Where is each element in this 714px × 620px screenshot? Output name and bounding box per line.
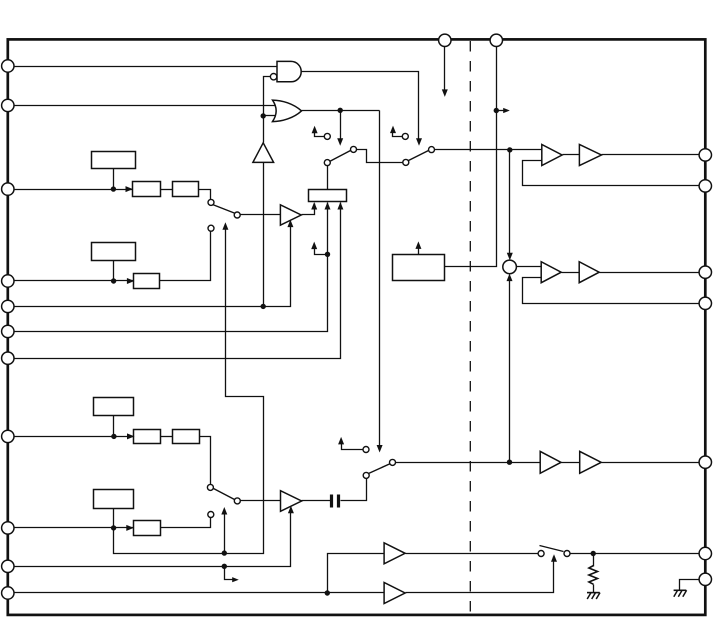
wire R3b to switch SW2 common [200,437,211,485]
block box2 [92,243,136,261]
switch SWB lower contact [403,159,409,165]
control elbow arrowhead [232,577,239,582]
wire pin1 to AND input A [11,66,279,68]
capacitor C1 plate2 [337,495,340,508]
wire pair1 inter-buffer [563,154,580,156]
wire pin3 to R1a [11,189,133,191]
wire SWA to SWB jog [357,150,403,163]
switch SWC lever [369,464,391,474]
wire buffer A2 out to DAC input a [302,204,315,215]
buffer B2 [281,491,302,512]
wire pin6 to DAC input b [11,203,328,332]
left pin circles [2,60,14,599]
resistor R2 [134,274,160,289]
wire pin10 to buffer B2 bottom arrow [11,509,291,567]
arrow from AND into SWB [416,138,422,146]
arrow into sum node top [507,253,513,260]
capacitor C1 plate1 [330,495,333,508]
switch SWC common contact [390,459,396,465]
buffer C2b [579,262,599,283]
switch SWA lower contact [324,160,330,166]
block box4 [94,490,134,509]
wire top pin T2 vertical [445,47,497,267]
mute buffer B3 [384,543,405,564]
wire R1a-R1b link [161,189,173,191]
resistor R4 [134,521,161,536]
wire control arrow to SW2 [224,510,226,554]
wire OR output to junction and down-arrow [302,110,380,112]
wire box4 stem [113,509,115,528]
switch SW1 open contact [208,225,214,231]
arrow into DAC b [325,202,331,210]
switch SWD left contact [538,551,544,557]
buffer C3b [580,451,602,473]
wire branch down to sum node top [509,150,511,256]
wire mute B4 output elbow up arrow [406,557,554,593]
wire pin4 to R2 [11,280,134,282]
wire resistor RG top lead [593,554,595,567]
top pin T1 circle [439,34,451,46]
switch SWD lever [540,546,564,552]
wire mute B3 output to switch SWD [406,553,539,555]
resistor RG zigzag [589,566,598,585]
switch SWB lever [409,151,429,161]
SWD control arrowhead [551,554,557,562]
wire SW1 throw to buffer A2 [241,214,281,216]
sum node circle [503,260,517,274]
buffer C3a [540,451,561,473]
wire pair2 inter-buffer [562,272,580,274]
wire pin2 to OR input A [11,105,277,107]
wire pair1 output to pin R1 [602,154,701,156]
regulator box [393,255,445,281]
switch SW2 common contact [207,484,213,490]
wire buffer B2 out to capacitor [302,500,331,502]
switch SWA upper contact [351,146,357,152]
regulator top arrowhead [415,241,421,249]
arrow into R2 [127,278,134,284]
wire pair2 output to pin R3 [600,272,701,274]
block box1 [92,152,136,169]
wire pin7 to DAC input c [11,203,341,359]
wire pair1 feedback from pin R2 [523,161,701,186]
wire pin8 to R3a [11,436,134,438]
wire pin R7 to ground [680,580,701,591]
buffer A2 bottom arrow [287,220,293,228]
wire OR output long vertical to SW2 area [379,111,381,449]
wire OR junction down arrow [340,111,342,140]
wire shaper output to OR input B and AND inverted input [264,77,271,143]
wire top pin T1 stem arrow down [444,47,446,91]
wire SWD to resistor tap and pin R6 [571,553,701,555]
AND inverted input bubble [270,74,276,80]
switch SW2 open contact [208,512,214,518]
buffer B2 bottom arrow [288,506,294,514]
ground G2 near pin R7 [674,590,687,596]
buffer C1a [542,145,562,166]
wire AND output elbow down [302,72,419,140]
wire node to shaper input [263,163,265,307]
arrow into sum node bottom [507,274,513,282]
SW1 control arrow [222,222,228,230]
resistor R3b [173,430,200,444]
wire T2 tap arrow right [497,110,505,112]
resistor R1a [133,182,161,197]
switch SWA lever [330,151,351,162]
mute buffer B4 [384,583,405,604]
tap symbol S1 [312,126,331,140]
buffer C1b [579,145,601,166]
wire SWB to buffer pair1 [435,149,542,151]
switch SW1 common contact [208,199,214,205]
wire branch up to sum node bottom [509,279,511,463]
wire pair3 inter-buffer [561,462,580,464]
wire box1 stem [113,169,115,190]
switch SW1 lever [213,205,236,214]
top pin T1 arrowhead [442,89,448,97]
top pin T2 tap arrowhead [503,108,510,113]
wire SWC common to pair3 [396,462,541,464]
wire pin9 to R4 [11,527,134,529]
switch SW2 lever [214,489,235,500]
wire branch to mute buffer B3 input [328,554,385,593]
arrow into R1a [126,186,134,192]
buffer A1 pointing up [253,143,274,163]
resistor R3a [134,430,161,444]
arrow into DAC a [311,202,317,210]
wire sum node to buffer pair2 [517,266,542,268]
arrow into DAC c [337,202,343,210]
wire regulator top arrow up [418,245,420,255]
wire resistor RG bottom lead [593,585,595,593]
DAC box [309,190,347,202]
ground G1 under resistor [587,593,600,599]
switch SWD right contact [564,551,570,557]
wire capacitor to selector SWC [341,479,367,501]
tap symbol S3 [338,437,369,453]
wire R2 to SW1 open throw [160,232,211,281]
arrow from OR into SWA [337,138,343,146]
right pin circles [699,149,711,586]
OR gate U2 [273,100,302,122]
wire pin11 to mute buffer B4 input [11,592,385,594]
SW2 control arrow [221,507,227,515]
wire control bus lower [114,225,264,554]
arrow into R4 [126,525,134,531]
buffer A2 [280,205,301,225]
wire R4 to SW2 open throw [161,518,211,528]
tap symbol S2 [390,126,408,140]
wire control branch down-right arrow [225,567,235,580]
wire pair2 feedback from pin R4 [523,278,701,304]
switch SWB upper contact [429,147,435,153]
wire box2 stem [113,261,115,281]
resistor R1b [173,182,199,197]
wire OR input B [264,115,277,117]
wire box3 stem [113,416,115,437]
switch SWC lower contact [363,472,369,478]
wire R1b to switch SW1 common [199,190,211,200]
switch SW2 throw contact [234,498,240,504]
wire SW2 throw to buffer B2 [241,500,281,502]
wire pair3 output to pin R5 [602,462,701,464]
arrow from OR-line into SWC [377,445,383,453]
wire pin5 to buffer A2 bottom arrow [11,223,291,307]
top pin T2 circle [490,34,502,46]
tap symbol S4 on DAC input b [311,242,327,255]
wire R3a-R3b link [161,436,173,438]
AND gate U1 [277,61,301,81]
wire DAC output to selector SWA [327,160,329,190]
buffer C2a [541,262,561,283]
switch SW1 throw contact [234,212,240,218]
dashed divider line [469,41,471,614]
block box3 [94,398,134,416]
arrow into R3a [127,433,135,439]
